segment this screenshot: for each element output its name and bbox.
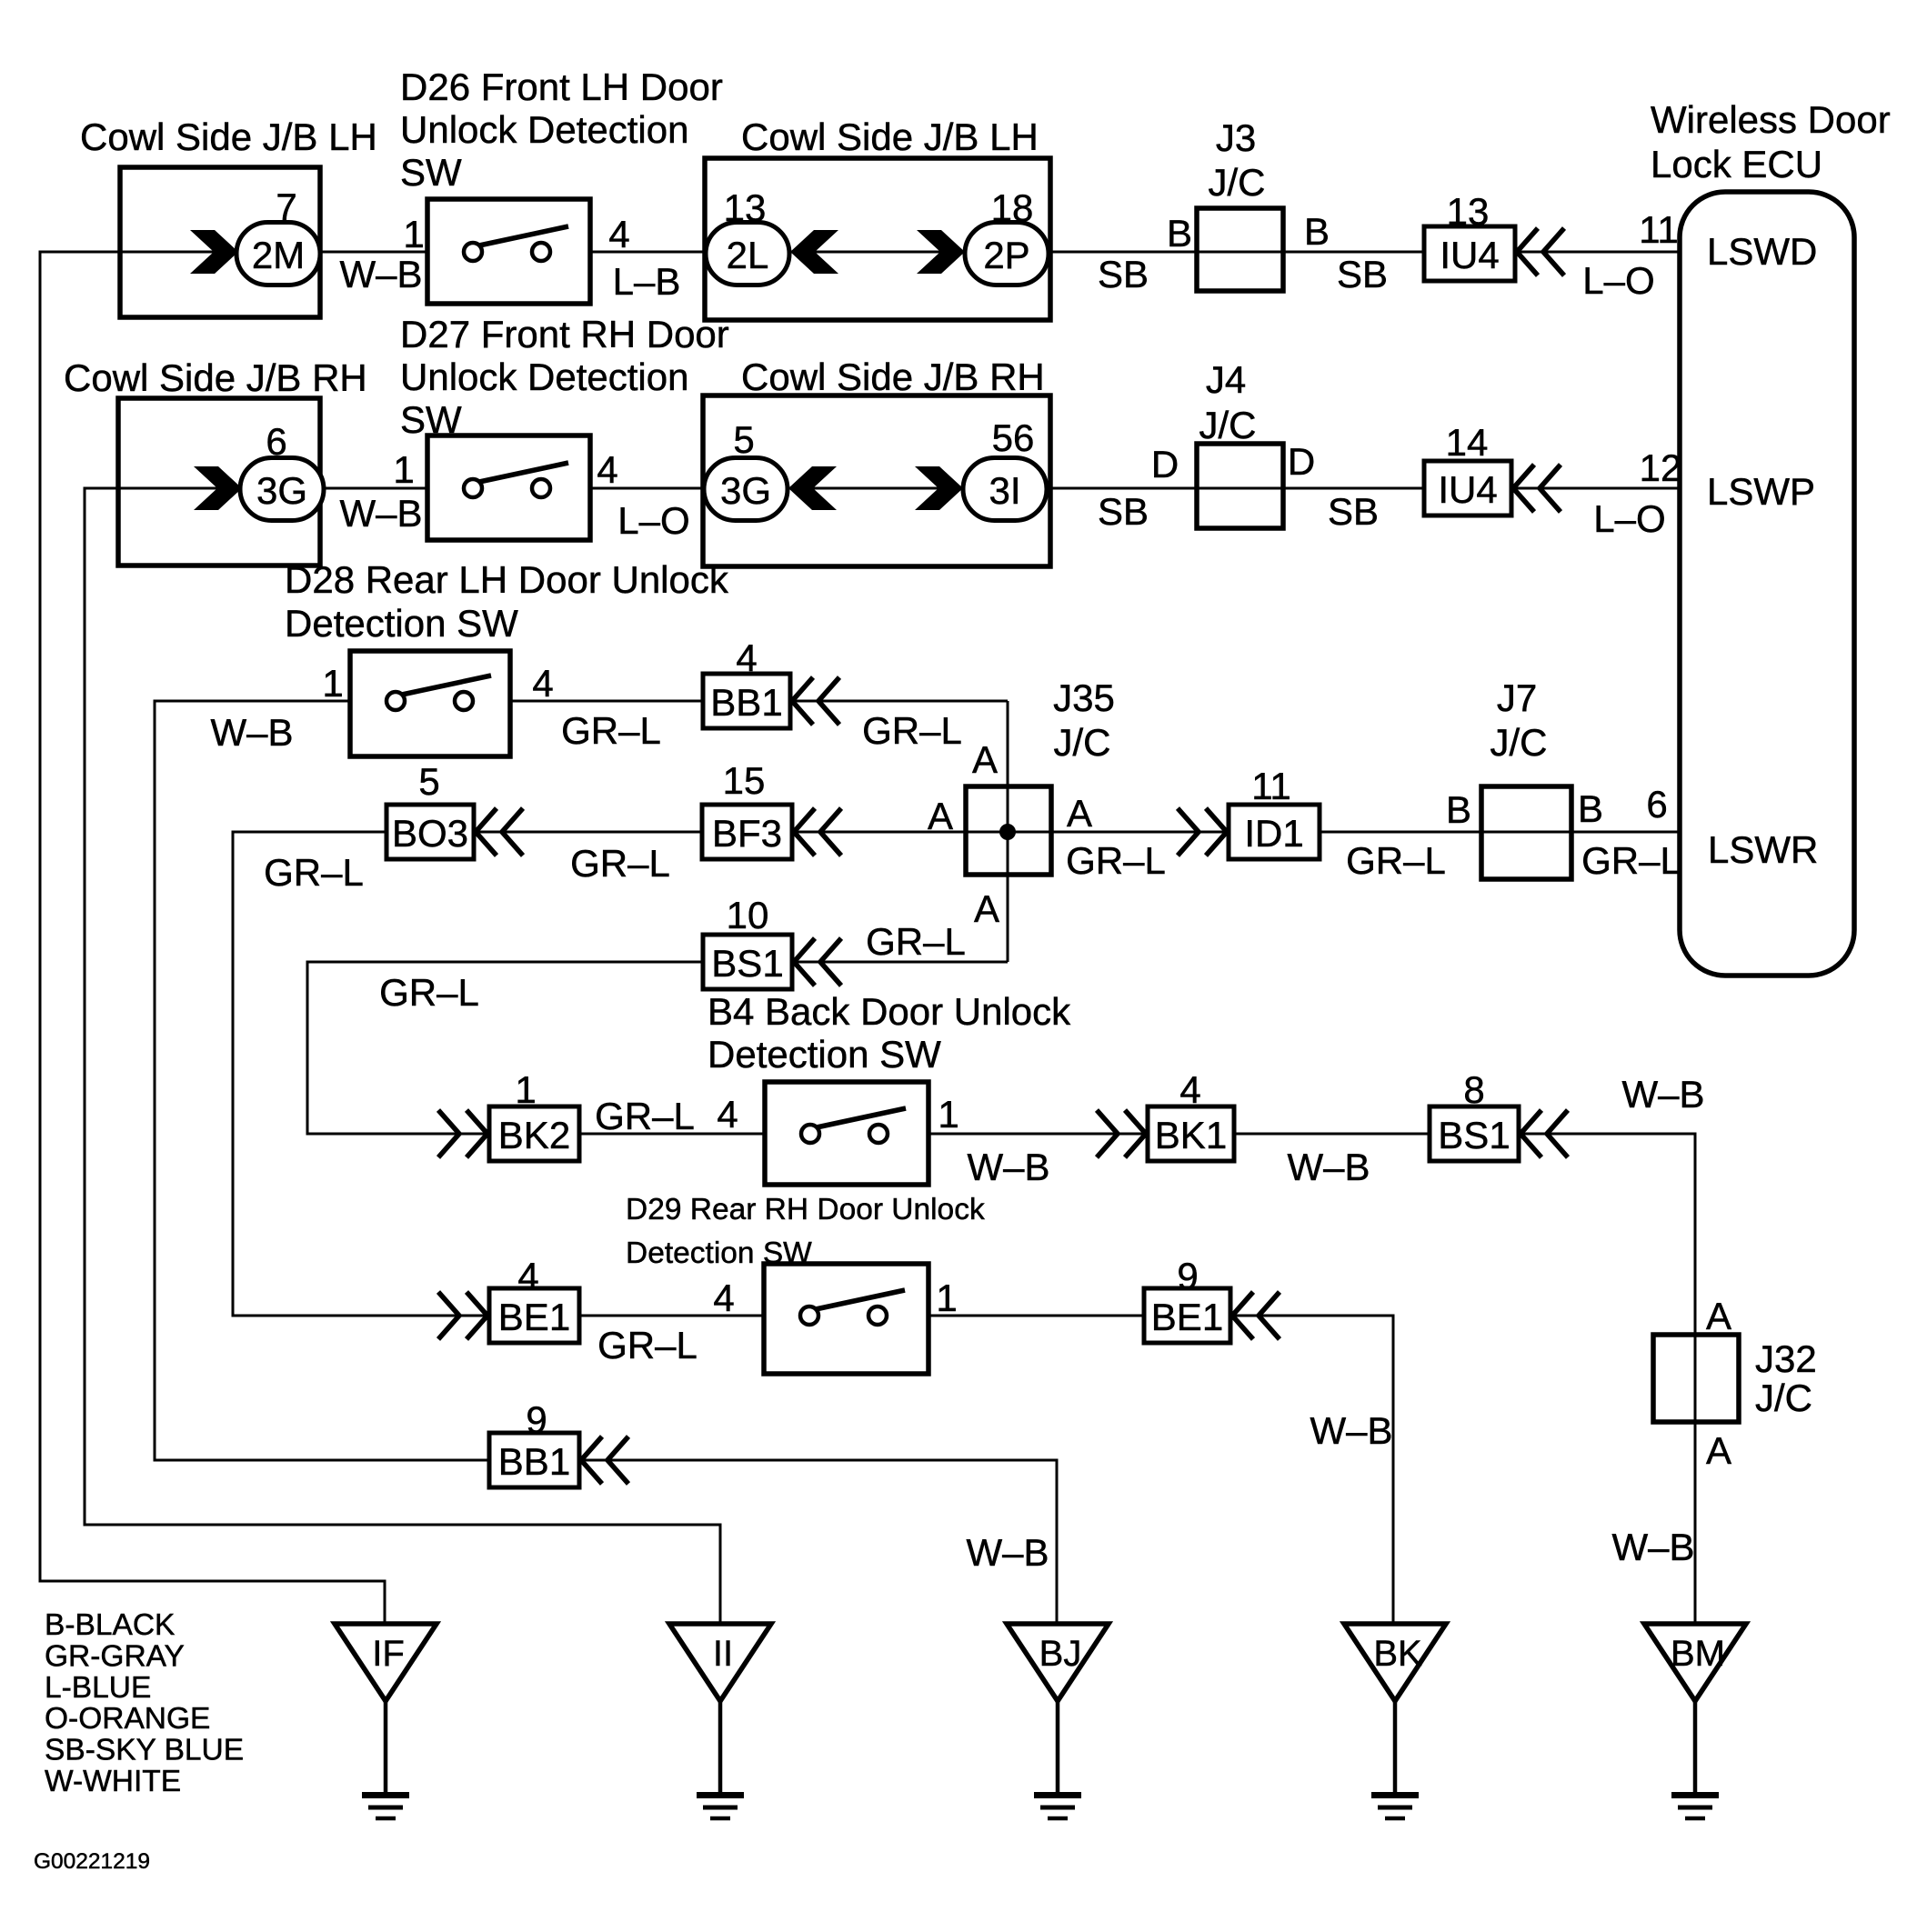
svg-text:GR–L: GR–L <box>862 709 962 752</box>
svg-text:A: A <box>1067 792 1092 835</box>
svg-text:SB: SB <box>1098 253 1149 295</box>
svg-text:Unlock Detection: Unlock Detection <box>400 108 688 151</box>
svg-text:1: 1 <box>393 448 414 491</box>
svg-text:Detection SW: Detection SW <box>285 602 518 645</box>
svg-text:W–B: W–B <box>967 1146 1049 1188</box>
svg-text:9: 9 <box>526 1398 547 1441</box>
svg-text:1: 1 <box>403 213 424 255</box>
svg-text:GR–L: GR–L <box>1066 839 1166 882</box>
svg-text:D: D <box>1151 443 1179 486</box>
svg-text:4: 4 <box>608 213 629 255</box>
svg-text:6: 6 <box>1646 783 1667 826</box>
svg-text:IU4: IU4 <box>1440 234 1499 276</box>
svg-text:3G: 3G <box>720 469 771 512</box>
svg-text:1: 1 <box>938 1093 958 1136</box>
svg-text:2P: 2P <box>983 234 1029 276</box>
svg-text:Cowl Side J/B RH: Cowl Side J/B RH <box>64 356 367 399</box>
svg-text:SB: SB <box>1337 253 1388 295</box>
svg-text:GR–L: GR–L <box>597 1324 698 1366</box>
svg-text:A: A <box>928 795 953 837</box>
svg-text:4: 4 <box>532 662 553 705</box>
svg-text:11: 11 <box>1639 208 1679 251</box>
svg-text:B-BLACK: B-BLACK <box>45 1608 175 1642</box>
svg-text:D: D <box>1288 440 1315 483</box>
svg-text:BK1: BK1 <box>1155 1114 1227 1156</box>
svg-text:56: 56 <box>992 416 1035 459</box>
svg-text:Cowl Side J/B LH: Cowl Side J/B LH <box>80 115 377 158</box>
svg-text:J32: J32 <box>1755 1337 1817 1380</box>
svg-text:1: 1 <box>322 662 343 705</box>
svg-text:O-ORANGE: O-ORANGE <box>45 1702 210 1736</box>
svg-text:A: A <box>1706 1429 1731 1472</box>
svg-text:B: B <box>1578 787 1603 830</box>
svg-text:18: 18 <box>991 186 1034 229</box>
svg-text:J/C: J/C <box>1209 161 1266 204</box>
svg-text:BJ: BJ <box>1039 1634 1082 1674</box>
svg-text:SW: SW <box>400 151 462 194</box>
svg-text:3I: 3I <box>989 469 1020 512</box>
svg-text:4: 4 <box>1179 1068 1200 1111</box>
svg-text:1: 1 <box>515 1068 536 1111</box>
svg-text:B: B <box>1167 212 1192 255</box>
svg-text:BE1: BE1 <box>1151 1296 1223 1338</box>
svg-text:W–B: W–B <box>1310 1409 1392 1452</box>
svg-text:SB: SB <box>1328 490 1379 533</box>
svg-text:BF3: BF3 <box>712 812 782 855</box>
svg-text:4: 4 <box>517 1255 538 1297</box>
svg-text:4: 4 <box>736 636 757 679</box>
svg-text:Wireless Door: Wireless Door <box>1651 98 1891 141</box>
svg-text:D29 Rear RH Door Unlock: D29 Rear RH Door Unlock <box>626 1193 985 1226</box>
svg-text:Cowl Side J/B LH: Cowl Side J/B LH <box>741 115 1039 158</box>
svg-text:12: 12 <box>1640 446 1682 489</box>
svg-text:IF: IF <box>372 1634 405 1674</box>
svg-text:J/C: J/C <box>1755 1376 1812 1419</box>
svg-text:BS1: BS1 <box>1438 1114 1510 1156</box>
svg-text:J35: J35 <box>1053 676 1115 719</box>
svg-text:J/C: J/C <box>1054 721 1111 764</box>
svg-text:W-WHITE: W-WHITE <box>45 1765 181 1798</box>
svg-text:LSWP: LSWP <box>1707 470 1815 513</box>
svg-text:10: 10 <box>727 894 769 936</box>
svg-text:3G: 3G <box>256 469 307 512</box>
svg-text:Cowl Side J/B RH: Cowl Side J/B RH <box>741 355 1045 398</box>
svg-text:W–B: W–B <box>1287 1146 1370 1188</box>
svg-text:9: 9 <box>1177 1255 1198 1297</box>
svg-text:D28 Rear LH Door Unlock: D28 Rear LH Door Unlock <box>285 558 729 601</box>
svg-text:BK: BK <box>1373 1634 1422 1674</box>
svg-text:L–O: L–O <box>617 499 689 542</box>
svg-text:W–B: W–B <box>210 711 293 754</box>
svg-text:LSWD: LSWD <box>1707 230 1817 273</box>
svg-text:14: 14 <box>1446 421 1489 464</box>
svg-text:BO3: BO3 <box>392 812 468 855</box>
svg-text:J4: J4 <box>1206 358 1246 401</box>
svg-text:Detection SW: Detection SW <box>708 1033 941 1076</box>
svg-text:13: 13 <box>724 186 767 229</box>
svg-text:B: B <box>1304 210 1330 253</box>
svg-text:W–B: W–B <box>339 492 422 535</box>
svg-text:5: 5 <box>733 418 754 461</box>
svg-text:5: 5 <box>418 760 439 803</box>
svg-text:Lock ECU: Lock ECU <box>1651 143 1822 185</box>
svg-text:GR–L: GR–L <box>1581 839 1681 882</box>
svg-text:GR–L: GR–L <box>595 1095 695 1137</box>
svg-text:GR–L: GR–L <box>866 920 966 963</box>
svg-text:SB: SB <box>1098 490 1149 533</box>
svg-text:D27 Front RH Door: D27 Front RH Door <box>400 313 729 355</box>
svg-text:B4 Back Door Unlock: B4 Back Door Unlock <box>708 990 1071 1033</box>
svg-text:BE1: BE1 <box>498 1296 570 1338</box>
svg-text:A: A <box>1706 1295 1731 1337</box>
svg-text:8: 8 <box>1463 1068 1484 1111</box>
svg-text:15: 15 <box>723 759 766 802</box>
svg-text:J/C: J/C <box>1490 721 1548 764</box>
svg-text:13: 13 <box>1447 190 1490 233</box>
svg-text:BK2: BK2 <box>498 1114 570 1156</box>
svg-text:II: II <box>713 1634 733 1674</box>
svg-text:6: 6 <box>266 420 286 463</box>
svg-text:4: 4 <box>713 1276 734 1319</box>
svg-text:GR–L: GR–L <box>264 851 364 894</box>
svg-text:4: 4 <box>597 448 617 491</box>
svg-text:A: A <box>974 887 999 930</box>
svg-text:2M: 2M <box>252 234 305 276</box>
svg-text:A: A <box>972 738 998 781</box>
svg-text:BS1: BS1 <box>711 942 783 985</box>
svg-text:11: 11 <box>1251 765 1291 807</box>
svg-text:GR–L: GR–L <box>570 842 670 885</box>
svg-text:GR–L: GR–L <box>561 709 661 752</box>
svg-text:GR-GRAY: GR-GRAY <box>45 1639 185 1673</box>
svg-text:J3: J3 <box>1216 116 1256 159</box>
svg-text:LSWR: LSWR <box>1708 828 1818 871</box>
svg-text:L-BLUE: L-BLUE <box>45 1671 151 1705</box>
svg-text:W–B: W–B <box>1611 1526 1694 1568</box>
svg-text:1: 1 <box>936 1276 957 1319</box>
svg-text:SB-SKY BLUE: SB-SKY BLUE <box>45 1734 244 1767</box>
svg-text:7: 7 <box>276 185 296 228</box>
svg-text:IU4: IU4 <box>1438 468 1497 511</box>
svg-text:W–B: W–B <box>1621 1073 1704 1116</box>
svg-text:2L: 2L <box>727 234 769 276</box>
svg-text:SW: SW <box>400 398 462 441</box>
svg-text:L–B: L–B <box>613 260 681 303</box>
svg-text:L–O: L–O <box>1593 497 1665 540</box>
svg-text:W–B: W–B <box>339 253 422 295</box>
svg-text:GR–L: GR–L <box>379 971 479 1014</box>
svg-text:G00221219: G00221219 <box>34 1849 150 1874</box>
svg-text:GR–L: GR–L <box>1346 839 1446 882</box>
svg-text:L–O: L–O <box>1582 259 1654 302</box>
svg-text:J7: J7 <box>1497 676 1537 719</box>
svg-text:W–B: W–B <box>966 1531 1049 1574</box>
svg-text:4: 4 <box>717 1093 738 1136</box>
svg-text:ID1: ID1 <box>1244 812 1303 855</box>
svg-text:Unlock Detection: Unlock Detection <box>400 355 688 398</box>
svg-text:BB1: BB1 <box>710 681 782 724</box>
svg-text:D26 Front LH Door: D26 Front LH Door <box>400 65 723 108</box>
svg-text:BM: BM <box>1671 1634 1725 1674</box>
svg-text:B: B <box>1446 788 1471 831</box>
svg-text:J/C: J/C <box>1199 404 1257 446</box>
svg-text:BB1: BB1 <box>498 1440 570 1483</box>
